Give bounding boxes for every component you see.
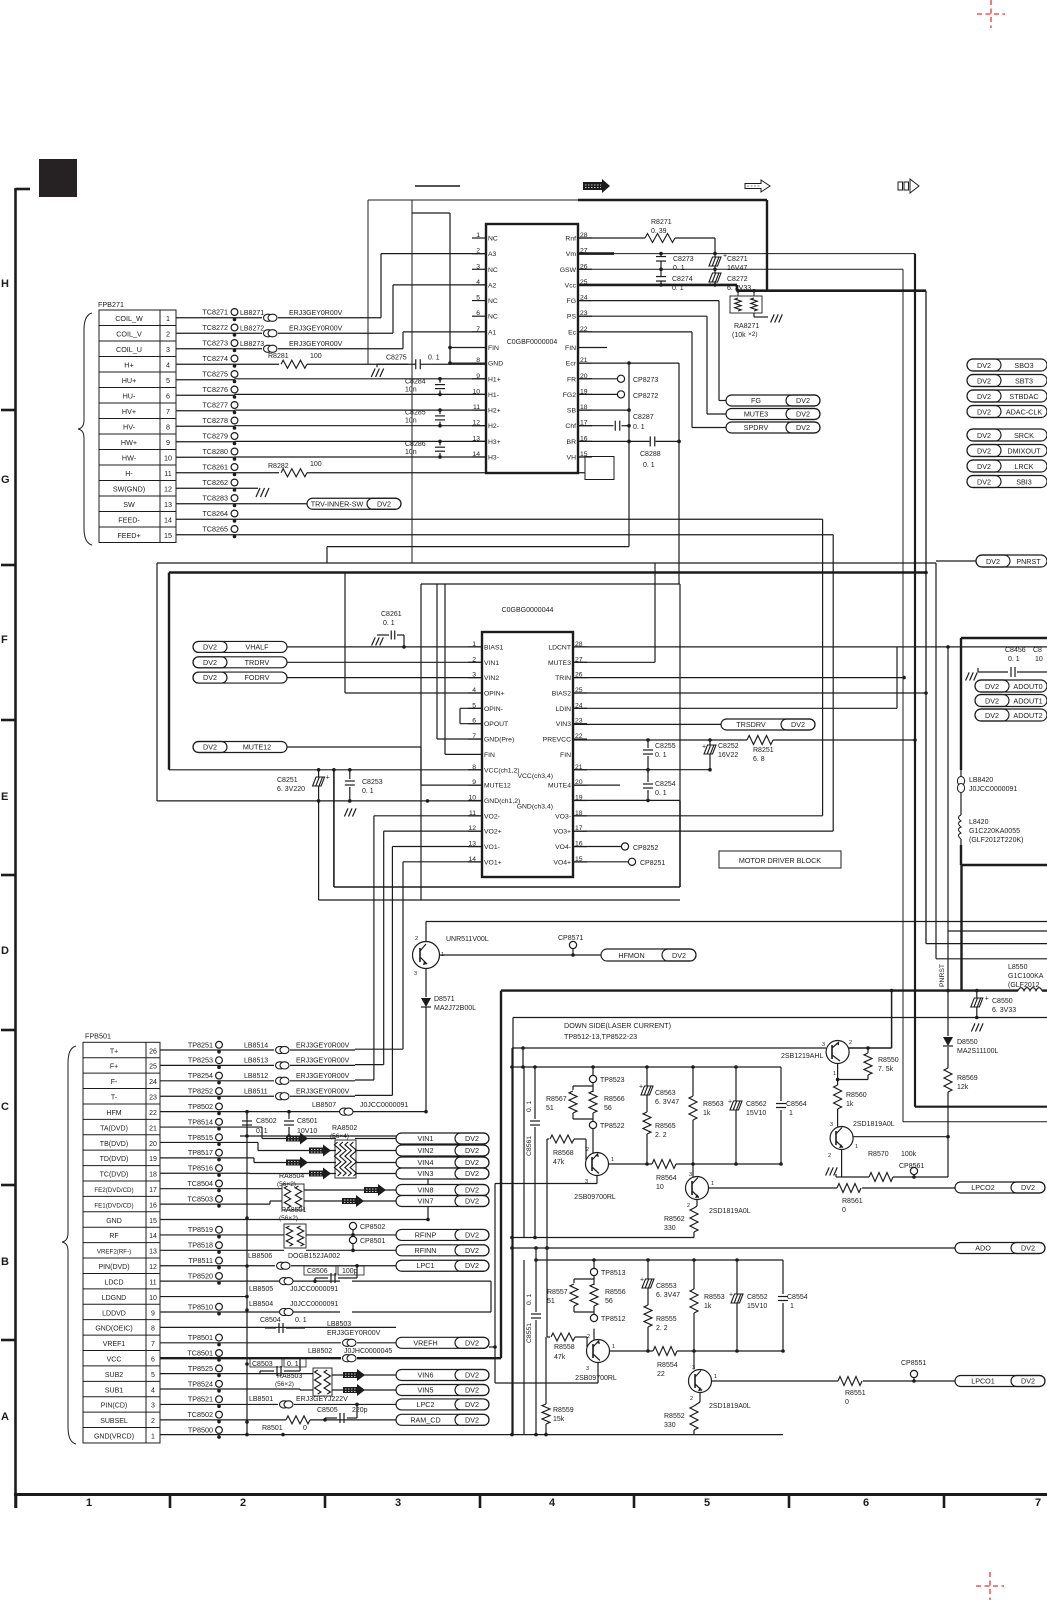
- svg-text:C8253: C8253: [362, 779, 383, 786]
- svg-text:2SB09700RL: 2SB09700RL: [575, 1375, 617, 1382]
- net flag PNRST: [976, 555, 1047, 567]
- svg-text:15V10: 15V10: [747, 1303, 767, 1310]
- svg-text:R8564: R8564: [656, 1175, 677, 1182]
- svg-text:0. 1: 0. 1: [673, 265, 685, 272]
- svg-text:ADOUT0: ADOUT0: [1013, 682, 1042, 691]
- svg-text:0: 0: [303, 1425, 307, 1432]
- svg-text:CP8502: CP8502: [360, 1224, 385, 1231]
- svg-text:TRIN: TRIN: [555, 675, 571, 682]
- svg-text:CP8273: CP8273: [633, 377, 658, 384]
- svg-text:DV2: DV2: [977, 447, 991, 456]
- svg-text:TP8502: TP8502: [188, 1102, 213, 1111]
- svg-text:1: 1: [611, 1157, 614, 1163]
- net flag VIN8: [396, 1185, 489, 1196]
- wire 2SB emitter thick: [848, 1047, 892, 1049]
- wire VO net 1: [384, 830, 482, 832]
- svg-text:11: 11: [149, 1279, 156, 1286]
- wire PIN(DVD) row: [160, 1265, 275, 1267]
- svg-text:TC8501: TC8501: [187, 1349, 213, 1358]
- wire SUB1 row: [160, 1388, 300, 1390]
- svg-text:5: 5: [166, 376, 170, 385]
- wire GSW net: [578, 268, 903, 270]
- net flag TRV-INNER-SW: [307, 498, 401, 509]
- svg-text:6. 3V220: 6. 3V220: [277, 786, 305, 793]
- wire node x629: [628, 363, 630, 546]
- svg-text:H3+: H3+: [488, 439, 501, 446]
- svg-text:0. 1: 0. 1: [362, 788, 374, 795]
- net flag ADAC-CLK: [967, 406, 1047, 418]
- capacitor C8287: [578, 425, 614, 427]
- svg-text:TP8501: TP8501: [188, 1333, 213, 1342]
- test point TP8522: [592, 1119, 594, 1122]
- border ruler tick 3: [1, 719, 16, 722]
- svg-text:VIN5: VIN5: [418, 1386, 434, 1395]
- wire VH: [578, 456, 585, 458]
- border ruler top tick: [16, 188, 31, 191]
- svg-text:D: D: [1, 945, 9, 957]
- svg-text:TC8261: TC8261: [202, 463, 228, 472]
- svg-text:TC(DVD): TC(DVD): [100, 1172, 129, 1179]
- svg-text:1: 1: [833, 1071, 836, 1077]
- net flag HFMON: [601, 949, 696, 961]
- capacitor C8273: [660, 254, 662, 257]
- svg-text:RAM_CD: RAM_CD: [410, 1415, 440, 1424]
- svg-text:C8252: C8252: [718, 743, 739, 750]
- svg-text:VIN1: VIN1: [418, 1134, 434, 1143]
- svg-text:TB(DVD): TB(DVD): [100, 1141, 128, 1148]
- svg-text:DV2: DV2: [1021, 1183, 1035, 1192]
- connector FPB271 table: [99, 310, 176, 543]
- svg-text:TP8514: TP8514: [188, 1117, 213, 1126]
- svg-text:C8288: C8288: [640, 451, 661, 458]
- svg-text:14: 14: [149, 1233, 157, 1240]
- svg-text:25: 25: [149, 1064, 157, 1071]
- capacitor C8506: [304, 1266, 336, 1275]
- diode D8550 MA2S11100L: [947, 991, 949, 1036]
- test point CP8272: [578, 393, 617, 395]
- svg-text:B: B: [1, 1256, 9, 1268]
- svg-text:UNR511V00L: UNR511V00L: [446, 936, 489, 943]
- svg-text:HFMON: HFMON: [618, 951, 644, 960]
- svg-text:R8281: R8281: [268, 353, 289, 360]
- svg-text:+: +: [326, 775, 330, 782]
- svg-text:TC8504: TC8504: [187, 1179, 213, 1188]
- svg-text:ERJ3GEYJ222V: ERJ3GEYJ222V: [296, 1396, 348, 1403]
- svg-text:DMIXOUT: DMIXOUT: [1007, 447, 1041, 456]
- wire upper bottom rail: [512, 1237, 694, 1239]
- ground C8253: [344, 808, 356, 816]
- svg-text:R8555: R8555: [656, 1316, 677, 1323]
- net flag VIN2: [396, 1145, 489, 1156]
- svg-text:TC8502: TC8502: [187, 1410, 213, 1419]
- svg-text:10: 10: [164, 454, 172, 463]
- svg-text:D8550: D8550: [957, 1039, 978, 1046]
- svg-text:C8287: C8287: [633, 414, 654, 421]
- jump arrow 2 (open): [745, 180, 770, 192]
- svg-text:1k: 1k: [846, 1101, 854, 1108]
- svg-text:LRCK: LRCK: [1014, 462, 1033, 471]
- ground near C8275: [376, 364, 378, 367]
- svg-text:TC8276: TC8276: [202, 385, 228, 394]
- wire inner col x524 upper: [523, 1067, 525, 1238]
- diode D8571 MA2J72B00L: [425, 969, 427, 998]
- svg-text:R8550: R8550: [878, 1057, 899, 1064]
- svg-text:+: +: [985, 996, 989, 1003]
- svg-text:H2+: H2+: [488, 408, 501, 415]
- transistor 2SD1819A0L right: [830, 1127, 853, 1150]
- svg-text:6. 3V33: 6. 3V33: [992, 1007, 1016, 1014]
- svg-text:TP8510: TP8510: [188, 1302, 213, 1311]
- svg-text:DV2: DV2: [977, 431, 991, 440]
- svg-text:R8282: R8282: [268, 463, 289, 470]
- svg-text:C8554: C8554: [787, 1294, 808, 1301]
- svg-text:0. 1: 0. 1: [295, 1317, 307, 1324]
- border ruler tick 7: [1, 1339, 16, 1342]
- svg-text:DV2: DV2: [465, 1246, 479, 1255]
- wire FE2 row: [160, 1188, 282, 1190]
- jump arrow vin5: [343, 1384, 365, 1396]
- wire GND(Pre): [437, 738, 482, 740]
- wire GND(ch3,4): [573, 799, 680, 801]
- svg-text:3: 3: [414, 971, 417, 977]
- svg-text:DV2: DV2: [465, 1197, 479, 1206]
- wire Vm net: [578, 252, 614, 255]
- jump arrow vin6: [343, 1369, 365, 1381]
- svg-text:FIN: FIN: [565, 345, 576, 352]
- svg-text:LPCO2: LPCO2: [971, 1183, 995, 1192]
- svg-text:FEED-: FEED-: [118, 516, 140, 525]
- svg-text:R8568: R8568: [553, 1150, 574, 1157]
- capacitor C8255: [647, 740, 649, 748]
- svg-text:RA8501: RA8501: [281, 1207, 306, 1214]
- svg-text:DV2: DV2: [465, 1186, 479, 1195]
- svg-text:TP8523: TP8523: [600, 1077, 625, 1084]
- svg-text:DV2: DV2: [985, 682, 999, 691]
- svg-text:PS: PS: [567, 314, 577, 321]
- wire VO net 3: [403, 861, 482, 863]
- svg-text:H: H: [1, 278, 9, 290]
- svg-text:C8284: C8284: [405, 378, 426, 385]
- ground C8456: [966, 672, 978, 680]
- svg-text:H1-: H1-: [488, 392, 499, 399]
- svg-text:DV2: DV2: [796, 423, 810, 432]
- svg-text:TP8512-13,TP8522-23: TP8512-13,TP8522-23: [564, 1032, 637, 1041]
- svg-text:15V10: 15V10: [746, 1110, 766, 1117]
- wire MUTE3 ic2: [573, 661, 655, 663]
- svg-text:100p: 100p: [342, 1268, 358, 1275]
- svg-text:13: 13: [164, 500, 172, 509]
- svg-text:COIL_W: COIL_W: [115, 314, 143, 323]
- op-amp/driver IC C0GBG0000044 box: [482, 632, 573, 877]
- svg-text:DV2: DV2: [465, 1146, 479, 1155]
- svg-text:+: +: [728, 1099, 732, 1106]
- svg-text:TP8251: TP8251: [188, 1040, 213, 1049]
- svg-text:A1: A1: [488, 329, 497, 336]
- svg-text:TP8520: TP8520: [188, 1271, 213, 1280]
- net flag STBDAC: [967, 390, 1047, 402]
- svg-text:FG: FG: [751, 396, 761, 405]
- net flag VIN1: [396, 1133, 489, 1144]
- svg-text:BR: BR: [567, 439, 577, 446]
- wire node x679: [678, 363, 680, 584]
- test point TP8513: [593, 1260, 595, 1272]
- bottom tick 4: [479, 1495, 482, 1509]
- capacitor C8503: [250, 1358, 282, 1367]
- svg-text:TP8513: TP8513: [601, 1270, 626, 1277]
- svg-text:VREF1: VREF1: [103, 1341, 126, 1348]
- wire GND(VRCD) rail: [160, 1434, 783, 1436]
- svg-text:TRV-INNER-SW: TRV-INNER-SW: [311, 499, 364, 508]
- svg-text:VO2-: VO2-: [484, 813, 500, 820]
- svg-text:TP8500: TP8500: [188, 1426, 213, 1435]
- svg-text:LB8506: LB8506: [248, 1253, 272, 1260]
- svg-text:MUTE12: MUTE12: [243, 743, 271, 752]
- svg-text:BIAS2: BIAS2: [552, 690, 571, 697]
- svg-text:TRSDRV: TRSDRV: [736, 720, 766, 729]
- svg-text:FG: FG: [567, 298, 576, 305]
- svg-text:LB8505: LB8505: [249, 1286, 273, 1293]
- svg-text:19: 19: [149, 1156, 157, 1163]
- bottom tick 6: [788, 1495, 791, 1509]
- svg-text:LPC2: LPC2: [417, 1400, 435, 1409]
- wire VCC row thick: [160, 1357, 341, 1359]
- net flag ADOUT0: [975, 680, 1047, 692]
- svg-text:FE2(DVD/CD): FE2(DVD/CD): [94, 1187, 133, 1194]
- net flag VIN6: [396, 1370, 489, 1381]
- svg-text:DV2: DV2: [977, 361, 991, 370]
- svg-text:R8563: R8563: [703, 1101, 724, 1108]
- svg-text:PREVCC: PREVCC: [543, 737, 571, 744]
- wire FIN left: [450, 347, 486, 349]
- svg-text:CP8251: CP8251: [640, 860, 665, 867]
- svg-text:FEED+: FEED+: [117, 531, 140, 540]
- svg-text:GND(OEIC): GND(OEIC): [95, 1326, 132, 1333]
- svg-text:330: 330: [664, 1422, 676, 1429]
- svg-text:+: +: [729, 1292, 733, 1299]
- wire row TA-TC VIN2: [160, 1141, 258, 1143]
- svg-text:HV-: HV-: [123, 423, 136, 432]
- svg-text:0. 1: 0. 1: [526, 1100, 533, 1112]
- wire row 3 fpb501: [160, 1095, 274, 1097]
- svg-text:7: 7: [1035, 1497, 1041, 1509]
- svg-text:FG2: FG2: [563, 392, 576, 399]
- svg-text:TC8264: TC8264: [202, 509, 228, 518]
- wire gnd col x428: [427, 1136, 429, 1220]
- svg-text:LB8502: LB8502: [308, 1348, 332, 1355]
- svg-text:RA8502: RA8502: [332, 1125, 357, 1132]
- svg-text:Vm: Vm: [566, 251, 577, 258]
- transistor 2SD1819A0L lower: [689, 1370, 712, 1393]
- svg-text:C8563: C8563: [655, 1090, 676, 1097]
- svg-text:DV2: DV2: [672, 951, 686, 960]
- wire inner col x524 lower: [523, 1260, 525, 1435]
- svg-text:GSW: GSW: [560, 267, 577, 274]
- svg-text:VCC(ch1,2): VCC(ch1,2): [484, 767, 520, 774]
- bottom tick 2: [169, 1495, 172, 1509]
- svg-text:VREF2(RF-): VREF2(RF-): [97, 1249, 131, 1256]
- svg-text:DV2: DV2: [1021, 1377, 1035, 1386]
- test point TP8523: [592, 1067, 594, 1079]
- wire PIN(CD) row: [160, 1403, 278, 1405]
- wire FG net: [578, 300, 719, 302]
- svg-text:FPB501: FPB501: [85, 1031, 111, 1040]
- svg-text:LB8503: LB8503: [327, 1321, 351, 1328]
- jump arrow vin1: [286, 1133, 308, 1145]
- svg-text:TP8254: TP8254: [188, 1071, 213, 1080]
- svg-text:C8552: C8552: [747, 1294, 768, 1301]
- svg-text:2SB1219AHL: 2SB1219AHL: [781, 1053, 824, 1060]
- svg-text:GND(ch1,2): GND(ch1,2): [484, 798, 520, 805]
- border ruler tick 4: [1, 874, 16, 877]
- box MOTOR DRIVER BLOCK: [719, 851, 841, 868]
- svg-text:2: 2: [687, 1203, 690, 1209]
- svg-text:DV2: DV2: [465, 1386, 479, 1395]
- net flag SRCK: [967, 429, 1047, 441]
- svg-text:C0GBF0000004: C0GBF0000004: [507, 339, 558, 346]
- svg-text:NC: NC: [488, 314, 498, 321]
- svg-text:10: 10: [1035, 656, 1043, 663]
- svg-text:0. 1: 0. 1: [526, 1293, 533, 1305]
- wire HFMON line: [440, 954, 602, 956]
- test point CP8501: [349, 1236, 356, 1243]
- jump arrow vin2: [309, 1145, 331, 1157]
- wire cap return line: [240, 1135, 428, 1137]
- svg-text:Chf: Chf: [565, 423, 576, 430]
- wire H row 0: [176, 379, 235, 381]
- svg-text:CP8501: CP8501: [360, 1238, 385, 1245]
- svg-text:R8570: R8570: [868, 1151, 889, 1158]
- svg-text:TP8519: TP8519: [188, 1225, 213, 1234]
- wire OPIN- OPOUT loop: [460, 707, 482, 709]
- wire COIL row 2: [176, 332, 262, 334]
- wire row TA-TC VIN3: [160, 1172, 250, 1174]
- svg-text:LB8272: LB8272: [240, 326, 264, 333]
- svg-text:R8558: R8558: [554, 1344, 575, 1351]
- wire H+ row: [176, 363, 279, 365]
- svg-text:DOGB152JA002: DOGB152JA002: [288, 1253, 340, 1260]
- svg-text:C8272: C8272: [727, 276, 748, 283]
- net flag VIN5: [396, 1385, 489, 1396]
- svg-text:TC8271: TC8271: [202, 308, 228, 317]
- svg-text:+: +: [639, 1084, 643, 1091]
- capacitor C8272 6.3V33: [714, 269, 716, 273]
- svg-text:TC8273: TC8273: [202, 339, 228, 348]
- svg-text:PNRST: PNRST: [939, 964, 946, 987]
- bottom tick 1: [15, 1495, 18, 1509]
- wire Ecr net: [578, 362, 679, 364]
- svg-text:FPB271: FPB271: [98, 300, 124, 309]
- svg-text:DV2: DV2: [986, 557, 1000, 566]
- svg-text:4: 4: [549, 1497, 556, 1509]
- svg-text:13: 13: [149, 1249, 157, 1256]
- wire H row 1: [176, 394, 235, 396]
- svg-text:0. 1: 0. 1: [428, 355, 440, 362]
- svg-text:RA8504: RA8504: [279, 1173, 304, 1180]
- svg-text:Vcc: Vcc: [565, 282, 577, 289]
- wire OPIN+ net: [345, 692, 482, 694]
- svg-text:15: 15: [164, 531, 172, 540]
- svg-text:0. 1: 0. 1: [383, 620, 395, 627]
- svg-text:10n: 10n: [405, 386, 417, 393]
- test point CP8571: [569, 941, 576, 948]
- wire laser box left: [512, 1018, 514, 1435]
- wire 2SB collector: [837, 1064, 839, 1086]
- svg-text:G: G: [1, 474, 10, 486]
- svg-text:SBO3: SBO3: [1014, 361, 1033, 370]
- border ruler tick 1: [1, 409, 16, 412]
- svg-text:G1C220KA0055: G1C220KA0055: [969, 828, 1020, 835]
- svg-text:R8556: R8556: [605, 1289, 626, 1296]
- wire SPDRV net: [578, 331, 692, 333]
- svg-text:J0JCC0000091: J0JCC0000091: [290, 1286, 338, 1293]
- svg-text:TP8515: TP8515: [188, 1133, 213, 1142]
- svg-text:2: 2: [586, 1147, 589, 1153]
- svg-text:DV2: DV2: [977, 392, 991, 401]
- svg-text:R8551: R8551: [845, 1390, 866, 1397]
- brace FPB271: [78, 313, 92, 545]
- svg-text:TC8265: TC8265: [202, 525, 228, 534]
- capacitor C8252 16V22: [709, 740, 711, 745]
- svg-text:5: 5: [151, 1372, 155, 1379]
- svg-text:3: 3: [689, 1172, 692, 1178]
- svg-text:C8275: C8275: [386, 355, 407, 362]
- svg-text:7: 7: [151, 1341, 155, 1348]
- svg-text:12: 12: [149, 1264, 157, 1271]
- svg-text:FODRV: FODRV: [244, 673, 269, 682]
- svg-text:CP8272: CP8272: [633, 393, 658, 400]
- svg-text:MUTE3: MUTE3: [548, 660, 571, 667]
- svg-text:H1+: H1+: [488, 376, 501, 383]
- svg-text:LDGND: LDGND: [102, 1295, 127, 1302]
- svg-text:TP8253: TP8253: [188, 1056, 213, 1065]
- svg-text:VCC(ch3,4): VCC(ch3,4): [517, 773, 553, 780]
- svg-text:VIN8: VIN8: [418, 1186, 434, 1195]
- wire HFM row: [160, 1111, 340, 1113]
- svg-text:VIN4: VIN4: [418, 1158, 434, 1167]
- svg-text:RF: RF: [109, 1233, 118, 1240]
- svg-text:24: 24: [149, 1079, 157, 1086]
- svg-text:PNRST: PNRST: [1016, 557, 1041, 566]
- svg-text:1: 1: [789, 1110, 793, 1117]
- svg-text:MUTE3: MUTE3: [744, 410, 768, 419]
- svg-text:8: 8: [166, 423, 170, 432]
- transistor 2SB09700RL upper: [586, 1153, 609, 1176]
- svg-text:47k: 47k: [554, 1354, 566, 1361]
- svg-text:2SD1819A0L: 2SD1819A0L: [709, 1403, 751, 1410]
- net flag FODRV: [193, 672, 287, 683]
- svg-text:MUTE4: MUTE4: [548, 783, 571, 790]
- svg-text:26: 26: [149, 1048, 157, 1055]
- svg-text:15k: 15k: [553, 1416, 565, 1423]
- svg-text:2: 2: [415, 936, 418, 942]
- wire 2SD right emitter: [853, 1136, 948, 1138]
- wire LDIN net: [573, 707, 897, 709]
- net flag SBO3: [967, 359, 1047, 371]
- net flag MUTE12: [193, 742, 287, 753]
- svg-text:1: 1: [790, 1303, 794, 1310]
- border ruler tick 5: [1, 1029, 16, 1032]
- svg-text:RFINP: RFINP: [415, 1230, 437, 1239]
- net flag SPDRV: [726, 422, 820, 433]
- svg-text:SUB1: SUB1: [105, 1387, 123, 1394]
- capacitor C8502: [246, 1112, 248, 1119]
- bottom tick 7: [943, 1495, 946, 1509]
- svg-text:7: 7: [166, 407, 170, 416]
- wire 2SD right collector gnd: [841, 1150, 843, 1171]
- test point CP8502: [349, 1222, 356, 1229]
- ground RA8271: [771, 314, 783, 322]
- svg-text:TC8262: TC8262: [202, 478, 228, 487]
